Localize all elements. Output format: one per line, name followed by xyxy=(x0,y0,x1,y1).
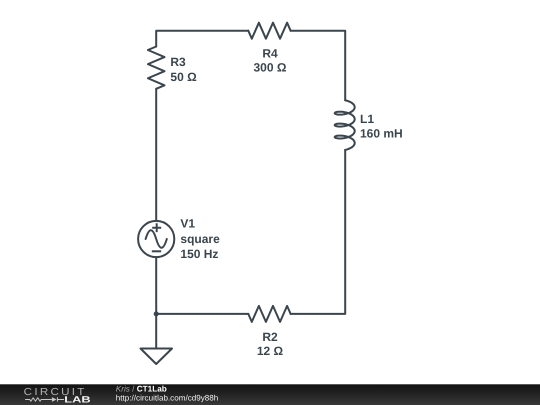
wire junction to ground xyxy=(155,314,157,349)
junction node xyxy=(154,311,159,316)
logo zigzag wire xyxy=(25,398,52,401)
svg-text:V1: V1 xyxy=(180,216,195,230)
ground symbol xyxy=(141,349,173,365)
wire V1 to junction xyxy=(155,257,157,314)
svg-text:150 Hz: 150 Hz xyxy=(180,247,218,261)
resistor R4 xyxy=(248,23,290,39)
wire R3 to V1 xyxy=(155,89,157,221)
wire top-left corner to R4 xyxy=(156,31,248,47)
svg-text:R2: R2 xyxy=(262,330,278,344)
V1 plus sign xyxy=(152,223,161,232)
resistor R2 xyxy=(248,306,290,322)
V1 minus sign xyxy=(152,250,161,252)
resistor R3 xyxy=(148,47,165,89)
svg-text:R3: R3 xyxy=(170,55,186,69)
voltage source V1 circle xyxy=(138,221,174,257)
label R2 xyxy=(257,330,284,358)
svg-text:http://circuitlab.com/cd9y88h: http://circuitlab.com/cd9y88h xyxy=(116,394,219,403)
label R3 xyxy=(170,55,197,84)
wire R4 to top-right corner down to L1 xyxy=(291,31,346,101)
label V1 xyxy=(180,216,220,260)
svg-text:square: square xyxy=(180,232,220,246)
wire R2 to junction xyxy=(156,313,248,315)
svg-text:R4: R4 xyxy=(262,46,278,60)
svg-text:50 Ω: 50 Ω xyxy=(170,70,197,84)
wire L1 to bottom-right corner xyxy=(291,150,346,314)
svg-text:12 Ω: 12 Ω xyxy=(257,344,284,358)
label R4 xyxy=(254,46,287,74)
logo diode xyxy=(52,397,57,402)
svg-text:LAB: LAB xyxy=(64,395,91,405)
label L1 xyxy=(360,112,403,140)
inductor L1 xyxy=(335,100,355,150)
V1 sine wave xyxy=(146,230,167,248)
svg-text:Kris / CT1Lab: Kris / CT1Lab xyxy=(116,384,167,393)
svg-text:L1: L1 xyxy=(360,112,374,126)
svg-text:160 mH: 160 mH xyxy=(360,126,403,140)
svg-text:300 Ω: 300 Ω xyxy=(254,61,287,75)
